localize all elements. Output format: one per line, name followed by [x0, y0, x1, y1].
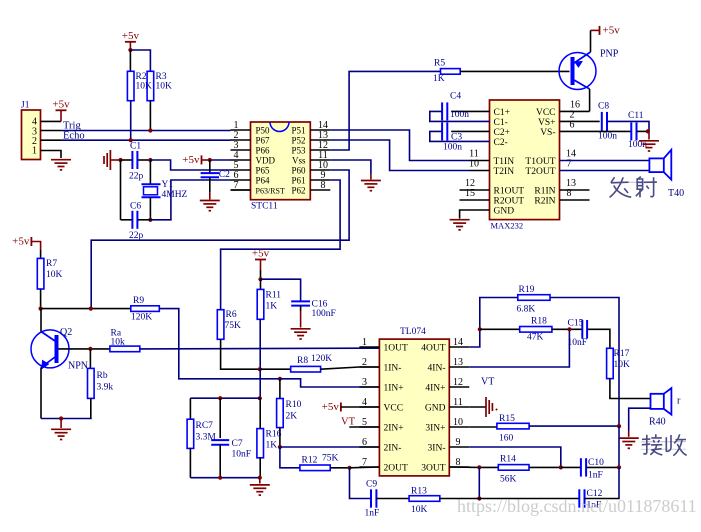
- capacitor C2: [209, 160, 211, 173]
- svg-text:12: 12: [453, 377, 463, 388]
- svg-text:8: 8: [321, 180, 326, 191]
- svg-text:P52: P52: [291, 136, 305, 146]
- wire pin7 down to C9: [350, 468, 371, 499]
- svg-text:+5v: +5v: [252, 248, 270, 260]
- svg-text:TL074: TL074: [400, 327, 426, 337]
- junction R2-Echo: [129, 138, 133, 142]
- U2 R2OUT stub open: [460, 199, 490, 201]
- J1 pin 1 wire: [41, 151, 62, 159]
- U1 pin7 stub open: [231, 189, 251, 191]
- U2 T2IN stub: [470, 170, 490, 172]
- svg-text:22p: 22p: [129, 172, 144, 182]
- wire R18 branch: [480, 328, 520, 330]
- power +5v at J1: [56, 109, 67, 111]
- svg-text:R13: R13: [411, 487, 427, 497]
- capacitor C11 on VS- line: [560, 130, 632, 132]
- svg-text:2K: 2K: [286, 412, 298, 422]
- capacitor C7: [219, 398, 221, 438]
- junction C7 bottom: [218, 476, 222, 480]
- svg-text:VT: VT: [341, 417, 356, 428]
- wire R13 to junction and C12: [440, 498, 480, 500]
- svg-text:P62: P62: [291, 186, 305, 196]
- svg-text:R1IN: R1IN: [534, 187, 555, 197]
- junction pin13/R18/C15: [567, 327, 571, 331]
- U2 R1OUT stub open: [460, 189, 490, 191]
- svg-text:RC7: RC7: [196, 421, 214, 431]
- resistor R12: [300, 465, 330, 471]
- svg-text:1nF: 1nF: [365, 509, 380, 519]
- svg-text:P67: P67: [256, 136, 271, 146]
- svg-text:R14: R14: [500, 455, 516, 465]
- svg-text:C8: C8: [598, 102, 609, 112]
- svg-text:R10: R10: [286, 400, 302, 410]
- wire emitter to +5v: [590, 30, 592, 52]
- wire U3 pin10 to R15: [469, 425, 497, 428]
- junction R10/pin6: [278, 445, 282, 449]
- wire P60 down-left to Q2 base node: [91, 170, 349, 309]
- speaker R40: [651, 388, 672, 415]
- wire R14 to C10 node: [529, 466, 561, 468]
- svg-text:C4: C4: [450, 92, 461, 102]
- svg-text:R3: R3: [156, 72, 167, 82]
- wire Ra to U3 pin1 1OUT: [140, 347, 380, 350]
- wire node to R8: [260, 368, 291, 370]
- speaker T40: [649, 150, 671, 180]
- U3 pin 8 stub: [449, 466, 469, 468]
- svg-text:4IN+: 4IN+: [425, 384, 445, 394]
- junction R15/R19 column: [617, 424, 621, 428]
- svg-text:R17: R17: [614, 349, 630, 359]
- svg-text:R19: R19: [519, 285, 535, 295]
- svg-text:R11: R11: [266, 291, 282, 301]
- svg-text:1: 1: [32, 146, 37, 157]
- svg-text:1IN+: 1IN+: [384, 384, 404, 394]
- resistor R14: [498, 465, 529, 471]
- wire C1-left to C6-left: [120, 160, 122, 220]
- power +5v at Q1 emitter: [599, 26, 601, 35]
- U1 pin 2 stub: [231, 139, 251, 141]
- wire Trig net: J1.3 to U1 pin1: [41, 130, 62, 132]
- transistor Q2 NPN: [31, 330, 69, 368]
- svg-text:2IN+: 2IN+: [384, 424, 404, 434]
- svg-text:1: 1: [362, 337, 367, 348]
- svg-text:GND: GND: [494, 207, 515, 217]
- wire Q2 base to Ra: [59, 348, 110, 350]
- svg-text:R6: R6: [226, 310, 237, 320]
- svg-text:C9: C9: [366, 480, 377, 490]
- wire R11 bottom to node: [259, 319, 261, 369]
- svg-text:10K: 10K: [46, 270, 63, 280]
- wire branch to C16: [261, 279, 301, 301]
- svg-text:C2+: C2+: [494, 128, 510, 138]
- U1 pin 5 stub: [231, 169, 251, 171]
- svg-text:3OUT: 3OUT: [421, 464, 445, 474]
- resistor R5: [441, 69, 461, 75]
- svg-text:13: 13: [453, 357, 463, 368]
- U3 pin 7 stub: [359, 466, 379, 468]
- U1 pin 3 stub: [231, 149, 251, 151]
- svg-text:P63/RST: P63/RST: [256, 187, 285, 196]
- svg-text:6.8K: 6.8K: [517, 305, 536, 315]
- capacitor C10: [561, 466, 581, 468]
- svg-text:C15: C15: [568, 319, 584, 329]
- svg-text:P61: P61: [291, 176, 305, 186]
- svg-text:120K: 120K: [131, 313, 152, 323]
- junction emitter ground: [59, 416, 63, 420]
- svg-text:1IN-: 1IN-: [384, 364, 402, 374]
- svg-text:1K: 1K: [266, 302, 278, 312]
- node B junction (XTAL2): [148, 218, 152, 222]
- U1 pin 14 stub: [310, 129, 330, 131]
- svg-text:75K: 75K: [322, 454, 339, 464]
- power +5v at U3 VCC: [340, 403, 342, 412]
- U1 pin 6 stub: [231, 179, 251, 181]
- wire base node rail: [41, 308, 131, 310]
- U1 pin 4 stub: [231, 159, 251, 161]
- svg-text:47K: 47K: [527, 333, 544, 343]
- junction R13 line: [477, 496, 481, 500]
- crystal Y1: [149, 160, 151, 184]
- svg-text:R15: R15: [499, 414, 515, 424]
- resistor Rb: [89, 349, 91, 369]
- junction C2 top: [208, 158, 212, 162]
- svg-text:P65: P65: [256, 166, 271, 176]
- capacitor C1: [121, 159, 132, 161]
- svg-text:10K: 10K: [614, 360, 631, 370]
- U3 pin 9 stub: [449, 446, 469, 448]
- svg-text:R16: R16: [266, 430, 282, 440]
- wire emitter down: [40, 368, 42, 419]
- svg-text:1nF: 1nF: [588, 471, 603, 481]
- svg-text:C1: C1: [130, 142, 141, 152]
- svg-text:C7: C7: [232, 439, 243, 449]
- svg-text:P64: P64: [256, 176, 271, 186]
- power +5v above R2/R3: [125, 41, 136, 43]
- junction R9/R10/pin3: [278, 377, 282, 381]
- connector J1: [22, 110, 41, 160]
- U3 pin 4 stub: [359, 406, 379, 408]
- wire C8 to VS- node: [607, 121, 649, 131]
- ground at C16: [291, 329, 311, 339]
- U2 R2IN stub open: [560, 199, 590, 201]
- junction base/Rb/Ra: [88, 347, 92, 351]
- capacitor C8 on VS+ line: [560, 120, 600, 122]
- svg-text:1K: 1K: [433, 74, 445, 84]
- junction R12/pin7: [347, 466, 351, 470]
- wire pin6 node to U3 pin6: [280, 446, 380, 448]
- resistor R8: [291, 366, 321, 372]
- wire P52 to U2 T2IN: [330, 140, 469, 171]
- svg-text:3: 3: [362, 377, 367, 388]
- U3 pin 11 stub: [449, 406, 469, 408]
- resistor R10: [279, 379, 281, 399]
- junction pin8/R14/down: [477, 465, 481, 469]
- svg-text:VCC: VCC: [384, 404, 404, 414]
- svg-text:160: 160: [499, 434, 514, 444]
- junction C10 right column: [617, 465, 621, 469]
- svg-text:+5v: +5v: [603, 24, 621, 36]
- label receive 接收: [641, 441, 686, 443]
- wire U3 pin9 to R14 node: [469, 447, 561, 467]
- wire collector to U2 VCC: [589, 89, 591, 111]
- svg-text:11: 11: [453, 397, 463, 408]
- svg-text:7: 7: [362, 457, 367, 468]
- junction R14/pin9/C10: [559, 465, 563, 469]
- U3 pin 14 stub: [449, 346, 469, 348]
- ground at Vss: [361, 181, 381, 191]
- svg-text:VS+: VS+: [538, 118, 556, 128]
- resistor Ra: [110, 346, 140, 352]
- svg-text:C2: C2: [219, 170, 230, 180]
- resistor R16: [259, 398, 261, 428]
- svg-text:C6: C6: [130, 201, 141, 211]
- svg-text:T40: T40: [668, 188, 684, 199]
- ground (earth) at C1/C6: [104, 150, 110, 170]
- U1 pin 13 stub: [310, 139, 330, 141]
- svg-text:4MHZ: 4MHZ: [162, 190, 188, 200]
- svg-text:10k: 10k: [111, 337, 126, 347]
- svg-text:9: 9: [456, 437, 461, 448]
- wire P51 to U2 T1IN: [330, 130, 469, 161]
- capacitor C15: [582, 320, 587, 339]
- junction R6/R8/R11: [258, 367, 262, 371]
- junction rail right: [258, 396, 262, 400]
- svg-text:100n: 100n: [443, 142, 462, 152]
- wire U3 pin7 2OUT: [350, 466, 380, 469]
- svg-text:3.9k: 3.9k: [97, 383, 114, 393]
- svg-text:R12: R12: [302, 456, 318, 466]
- svg-text:100n: 100n: [598, 132, 617, 142]
- wire R19 to right column: [550, 298, 619, 427]
- svg-text:10K: 10K: [411, 505, 428, 515]
- wire R2 to Echo: [130, 101, 132, 141]
- svg-text:4IN-: 4IN-: [428, 364, 446, 374]
- wire T2OUT to speaker T40: [560, 170, 650, 172]
- U3 pin 6 stub: [359, 446, 379, 448]
- svg-text:+5v: +5v: [322, 401, 340, 413]
- svg-text:VCC: VCC: [536, 108, 556, 118]
- junction P60 line: [89, 307, 93, 311]
- junction ground rail: [258, 476, 262, 480]
- svg-text:R18: R18: [531, 317, 547, 327]
- wire node to U3 pin3: [280, 379, 380, 387]
- U2 GND wire to ground: [460, 210, 490, 219]
- svg-text:https://blog.csdn.net/u0118786: https://blog.csdn.net/u011878611: [457, 496, 697, 516]
- svg-text:R9: R9: [133, 296, 144, 306]
- wire C12 to right column: [585, 497, 620, 499]
- junction C1 left: [118, 158, 122, 162]
- svg-text:10K: 10K: [136, 82, 153, 92]
- wire pin6 node down to R12: [280, 447, 300, 468]
- svg-text:PNP: PNP: [600, 49, 619, 60]
- svg-text:Q2: Q2: [60, 327, 72, 338]
- resistor R17: [607, 348, 614, 378]
- svg-text:T1IN: T1IN: [494, 157, 515, 167]
- capacitor C3 with C2+/C2- wires: [451, 130, 489, 132]
- capacitor C6: [121, 219, 132, 221]
- svg-text:6: 6: [362, 437, 367, 448]
- svg-text:+5v: +5v: [122, 30, 140, 42]
- U2 R1IN stub open: [560, 189, 590, 191]
- junction C7 top: [218, 396, 222, 400]
- svg-text:R7: R7: [46, 259, 57, 269]
- resistor R9: [131, 306, 160, 312]
- power +5v at U1 VDD: [201, 155, 203, 164]
- svg-text:10K: 10K: [156, 82, 173, 92]
- svg-text:STC11: STC11: [251, 202, 278, 212]
- svg-text:T2OUT: T2OUT: [525, 167, 555, 177]
- U1 pin 11 stub: [310, 159, 330, 161]
- junction R2/R3 +5v: [128, 48, 132, 52]
- wire R12 to pin7 node: [330, 467, 349, 469]
- U3 pin 13 stub: [449, 366, 469, 368]
- wire R3 to Trig: [149, 101, 151, 131]
- power +5v top of lower section: [30, 237, 32, 246]
- wire R9 to R10/pin3 node: [159, 309, 280, 379]
- svg-text:C16: C16: [312, 300, 328, 310]
- U3 pin 2 stub: [359, 366, 379, 368]
- svg-text:100nF: 100nF: [312, 309, 336, 319]
- U2 T1IN stub: [470, 160, 490, 162]
- wire P53 to R5: [330, 71, 440, 150]
- svg-text:56K: 56K: [500, 475, 517, 485]
- resistor R2: [129, 50, 131, 71]
- J1 pin 4 wire: [41, 120, 62, 122]
- resistor R6: [217, 310, 224, 340]
- svg-text:R2: R2: [136, 72, 147, 82]
- U3 pin 3 stub: [359, 386, 379, 388]
- svg-text:C1-: C1-: [494, 118, 508, 128]
- svg-text:C3: C3: [451, 133, 462, 143]
- resistor R19: [518, 295, 550, 301]
- svg-text:C1+: C1+: [494, 108, 510, 118]
- U1 pin 7 stub: [231, 189, 251, 191]
- ground at J1: [51, 160, 71, 170]
- wire C9 to R13: [376, 498, 409, 500]
- svg-text:P53: P53: [291, 146, 306, 156]
- junction R3-Trig: [148, 128, 152, 132]
- svg-text:2IN-: 2IN-: [384, 444, 402, 454]
- U3 pin 5 stub: [359, 426, 379, 428]
- op-amp U3 TL074 body: [379, 339, 449, 476]
- svg-text:GND: GND: [425, 404, 446, 414]
- junction R18 branch: [478, 327, 482, 331]
- svg-text:T1OUT: T1OUT: [525, 157, 555, 167]
- capacitor C12: [579, 489, 584, 507]
- ground at R16: [250, 485, 270, 495]
- svg-text:MAX232: MAX232: [491, 221, 524, 231]
- svg-text:R1OUT: R1OUT: [494, 187, 525, 197]
- ground at C11: [648, 131, 650, 139]
- U3 pin 10 stub: [449, 426, 469, 428]
- power +5v at R11: [255, 259, 266, 261]
- wire emitter rail to Rb bottom: [41, 418, 92, 420]
- svg-text:100n: 100n: [450, 110, 469, 120]
- wire rail y398: [190, 397, 259, 399]
- svg-text:1K: 1K: [266, 441, 278, 451]
- wire R7 to base node: [40, 289, 42, 309]
- U1 pin 9 stub: [310, 179, 330, 181]
- wire +5v to R3 top: [130, 50, 150, 71]
- resistor R15: [497, 423, 529, 429]
- svg-text:VS-: VS-: [540, 128, 555, 138]
- label transmit 发射: [610, 181, 657, 183]
- junction R11 top: [258, 277, 262, 281]
- wire C15 to R17: [587, 329, 610, 348]
- resistor R3: [147, 71, 154, 100]
- svg-text:R2IN: R2IN: [534, 197, 555, 207]
- svg-text:VT: VT: [481, 377, 494, 388]
- junction VS- ground node: [646, 129, 650, 133]
- svg-text:P50: P50: [256, 126, 271, 136]
- ground at U2 GND: [450, 220, 470, 230]
- svg-text:10nF: 10nF: [232, 450, 252, 460]
- U1 pin 10 stub: [310, 169, 330, 171]
- svg-text:2OUT: 2OUT: [384, 464, 408, 474]
- svg-text:Vss: Vss: [292, 156, 306, 166]
- svg-text:NPN: NPN: [68, 361, 88, 372]
- wire R15 to right column: [529, 425, 619, 427]
- transistor Q1 PNP: [559, 53, 596, 90]
- ground (earth) at U3 pin11 GND: [469, 406, 486, 408]
- U3 pin 1 stub: [359, 346, 379, 348]
- svg-text:P51: P51: [291, 126, 305, 136]
- resistor R13: [409, 496, 440, 502]
- wire Rb bottom: [90, 398, 92, 418]
- svg-text:10nF: 10nF: [568, 338, 588, 348]
- svg-text:+5v: +5v: [182, 154, 200, 166]
- U3 pin 12 stub: [449, 386, 469, 388]
- wire right column down to C12: [618, 467, 620, 498]
- svg-text:P60: P60: [291, 166, 306, 176]
- svg-text:R8: R8: [297, 356, 308, 366]
- resistor RC7: [189, 398, 191, 419]
- wire R8 to U3 pin2: [321, 367, 380, 369]
- wire R17 to speaker R40: [610, 379, 651, 399]
- wire U3 pin8 to R14: [449, 466, 498, 468]
- wire node A to U1 pin5: [150, 160, 230, 170]
- U1 pin 8 stub: [310, 189, 330, 191]
- wire P61 down-left to R6 top: [221, 180, 341, 310]
- wire speaker R40 to ground: [629, 408, 651, 430]
- U2 VCC pin16 wire: [560, 110, 590, 112]
- svg-text:T2IN: T2IN: [494, 167, 515, 177]
- svg-text:2: 2: [362, 357, 367, 368]
- ground at C2: [200, 201, 220, 211]
- capacitor C16: [291, 301, 310, 305]
- svg-text:J1: J1: [21, 101, 30, 111]
- wire T1OUT to speaker T40: [560, 160, 650, 162]
- svg-text:P66: P66: [256, 146, 271, 156]
- ground at Q2 emitter: [51, 429, 71, 439]
- svg-text:R5: R5: [434, 59, 445, 69]
- svg-text:R2OUT: R2OUT: [494, 197, 525, 207]
- node A junction (XTAL1): [148, 158, 152, 162]
- svg-text:75K: 75K: [225, 321, 242, 331]
- wire collector to node: [40, 309, 42, 332]
- wire U3 pin13 up to R18/C15 node: [469, 329, 569, 367]
- wire right column down to C10 node: [618, 426, 620, 467]
- svg-text:1OUT: 1OUT: [384, 344, 408, 354]
- junction R7/collector/R9: [39, 307, 43, 311]
- wire R6 bottom to R8 node: [221, 339, 260, 369]
- wire Echo net: J1.2 to U1 pin2: [41, 139, 62, 141]
- wire R5 to Q1 base: [460, 70, 569, 72]
- svg-text:C11: C11: [628, 111, 644, 121]
- svg-text:VDD: VDD: [256, 156, 276, 166]
- wire pin8 node down to R13 line: [478, 467, 480, 498]
- wire bottom rail: [190, 477, 259, 479]
